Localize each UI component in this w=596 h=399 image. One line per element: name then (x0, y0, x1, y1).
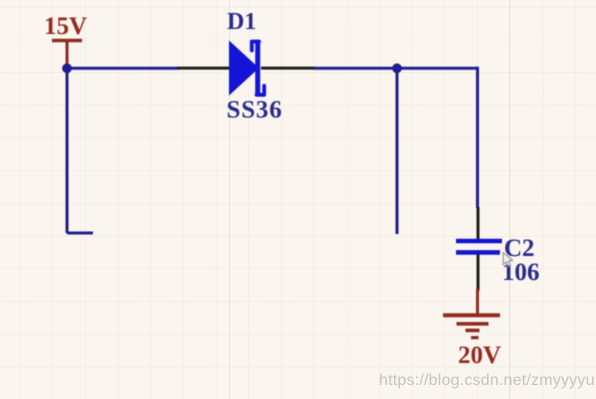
diode D1 schottky top flag (252, 42, 259, 51)
ground bar 2 (457, 322, 489, 326)
svg-text:15V: 15V (44, 13, 87, 40)
svg-text:D1: D1 (227, 9, 256, 35)
watermark (379, 372, 595, 390)
ground bar 1 (443, 313, 500, 317)
capacitor C2 pin 1 (top lead) (477, 207, 480, 239)
ground bar 3 (466, 329, 480, 333)
wire: 15V node to diode anode (66, 67, 178, 70)
diode D1 triangle (anode) (229, 41, 259, 96)
grid major line vertical (509, 0, 510, 399)
wire: left bottom stub (67, 232, 93, 235)
capacitor C2 pin 2 (bottom lead) (477, 255, 480, 292)
capacitor C2 bottom plate (456, 250, 500, 255)
capacitor C2 top plate (456, 239, 502, 244)
diode D1 schottky cathode bar (255, 43, 260, 94)
grid major line vertical 2 (229, 0, 230, 399)
diode D1 pin 2 (cathode lead) (261, 67, 315, 70)
ground bar 4 (471, 336, 479, 339)
wire: right vertical to capacitor (476, 67, 479, 208)
mouse cursor glyph (503, 253, 512, 267)
svg-text:SS36: SS36 (227, 97, 283, 124)
diode D1 schottky bottom flag (257, 86, 265, 95)
power port +15V bar (52, 39, 82, 43)
wire: left vertical drop (66, 68, 69, 233)
junction node at 15V (62, 63, 72, 73)
diode D1 pin 1 (anode lead) (177, 67, 230, 70)
svg-text:20V: 20V (458, 342, 501, 369)
wire: middle vertical drop (396, 68, 399, 234)
wire: diode cathode to output node (314, 67, 478, 70)
ground stem (476, 289, 479, 314)
junction node output (392, 63, 402, 73)
power port +15V stem (66, 41, 69, 69)
